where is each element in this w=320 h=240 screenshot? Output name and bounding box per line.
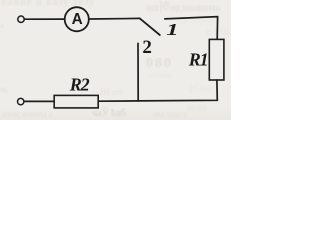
ghost digits center (bleed-through)	[146, 56, 173, 72]
resistor R1 body	[209, 39, 224, 80]
terminal top-left	[18, 16, 24, 22]
ghost under bottom wire right	[186, 103, 207, 113]
bleed-through ghost right of switch line2	[206, 27, 231, 38]
ammeter A1	[65, 7, 89, 31]
ghost right of R2 label	[100, 87, 123, 97]
ghost row bottom middle darker	[92, 108, 126, 119]
scan shading bottom edge	[0, 108, 231, 120]
bleed-through ghost text top right	[146, 0, 221, 15]
switch contact 1 wire to R1 top	[165, 17, 218, 40]
wire ammeter to switch	[89, 17, 140, 20]
wire R1 bottom to bottom rail	[138, 80, 217, 101]
ghost row bottom right	[152, 109, 187, 119]
left edge mark lower	[0, 84, 7, 94]
wire terminal to ammeter	[25, 18, 64, 20]
wire junction to R2	[98, 100, 138, 102]
bleed-through ghost text top left	[1, 0, 95, 8]
ghost below center digits	[150, 70, 172, 80]
svg-text:2: 2	[142, 37, 152, 58]
resistor R2 body	[54, 95, 98, 108]
bleed-through ghost right of switch line1	[178, 16, 220, 27]
ghost right mid	[190, 83, 212, 94]
ghost row bottom left	[2, 109, 53, 119]
svg-text:A: A	[72, 11, 83, 28]
switch contact 2 wire down	[137, 43, 139, 101]
wire R2 to terminal	[25, 100, 54, 102]
terminal bottom-left	[18, 98, 24, 104]
svg-text:R1: R1	[188, 50, 208, 70]
svg-text:1: 1	[166, 20, 178, 39]
svg-text:R2: R2	[69, 75, 90, 95]
switch blade	[140, 18, 160, 35]
left edge mark upper	[0, 20, 4, 30]
